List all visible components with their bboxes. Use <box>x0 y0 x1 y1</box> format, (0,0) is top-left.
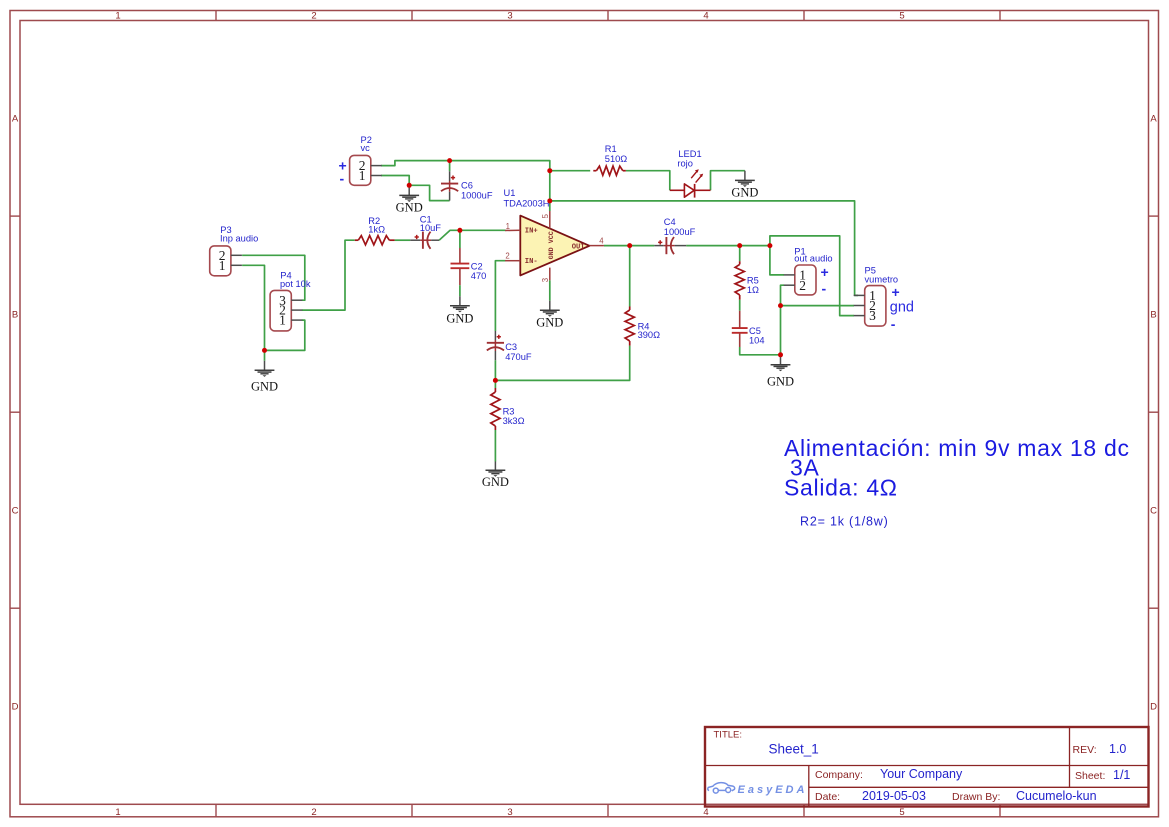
svg-text:GND: GND <box>536 315 563 329</box>
resistor R3 3k3 <box>491 388 500 430</box>
connector P3 <box>210 246 242 276</box>
ground GND (LED1) <box>731 171 758 200</box>
node P5 pin2 net <box>778 303 783 308</box>
capacitor C6 1000uF <box>441 171 458 200</box>
wire C5 bottom to GND junction <box>739 300 741 311</box>
resistor R5 1 ohm <box>735 261 744 300</box>
node C3/R3/R4 <box>493 378 498 383</box>
wire junction down to GND junction <box>780 306 782 355</box>
svg-text:A: A <box>12 114 19 125</box>
wire R1 to LED1 anode <box>626 171 670 191</box>
svg-text:3: 3 <box>507 807 512 818</box>
svg-text:104: 104 <box>749 336 765 346</box>
svg-text:IN+: IN+ <box>525 228 538 236</box>
wire P4 pin1 to GND junction <box>265 320 305 350</box>
connector P4 pot 10k <box>270 290 302 331</box>
capacitor C5 104 <box>732 311 748 347</box>
wire R4 bottom to C3/R3 junction <box>495 346 629 381</box>
svg-text:Your Company: Your Company <box>880 767 963 781</box>
label P1 designator <box>794 247 832 264</box>
svg-text:A: A <box>1150 114 1157 125</box>
svg-text:1: 1 <box>115 11 120 22</box>
svg-text:+: + <box>892 284 900 300</box>
wire GND junction to C6 bottom <box>409 185 449 200</box>
svg-text:C3: C3 <box>505 342 517 352</box>
svg-text:1: 1 <box>219 258 226 273</box>
ground GND (C2) <box>446 296 473 325</box>
wire R2 to C1 <box>395 239 411 241</box>
label C4 <box>664 217 696 237</box>
svg-text:Drawn By:: Drawn By: <box>952 791 1000 803</box>
svg-text:1: 1 <box>359 168 366 183</box>
wire GND junction down to ground <box>264 350 266 360</box>
wire C6 top to VCC bus <box>449 161 451 172</box>
ruler column numbers bottom <box>115 807 904 818</box>
wire P2 pin1 to GND junction <box>381 176 409 186</box>
wire U1 output to C4 <box>604 245 654 247</box>
svg-text:Salida: 4Ω: Salida: 4Ω <box>784 474 898 500</box>
node U1 output <box>627 243 632 248</box>
EasyEDA logo car icon <box>708 783 735 794</box>
ground GND (R3) <box>482 462 509 490</box>
capacitor C3 470uF <box>487 331 504 360</box>
svg-text:4: 4 <box>703 807 708 818</box>
ground GND (P3/P4) <box>251 361 278 394</box>
wire R3 to GND <box>494 430 496 462</box>
capacitor C1 10uF <box>410 232 439 249</box>
svg-text:1: 1 <box>279 313 286 328</box>
wire U1 pin5 bus to P5 pin1 <box>550 201 858 296</box>
svg-text:5: 5 <box>899 807 904 818</box>
node R1 tap <box>547 168 552 173</box>
svg-text:C4: C4 <box>664 217 676 227</box>
svg-text:D: D <box>1150 702 1157 713</box>
annotation power requirements <box>784 435 1130 500</box>
node C5 ground <box>778 352 783 357</box>
svg-text:1: 1 <box>115 807 120 818</box>
svg-text:TDA2003H: TDA2003H <box>504 198 550 208</box>
ruler row letters left <box>12 114 19 713</box>
svg-text:1000uF: 1000uF <box>461 191 493 201</box>
svg-text:GND: GND <box>446 311 473 325</box>
node R5 top <box>737 243 742 248</box>
node VCC bus at C6 <box>447 158 452 163</box>
wire VCC bus tap to R1 <box>550 170 590 172</box>
svg-text:3: 3 <box>507 11 512 22</box>
svg-text:B: B <box>12 310 18 321</box>
svg-text:rojo: rojo <box>677 159 693 169</box>
wire junction down to R5 <box>739 246 741 262</box>
label R4 <box>638 321 661 340</box>
node U1 pin5 bus <box>547 198 552 203</box>
capacitor C2 470 <box>451 248 470 296</box>
svg-text:Sheet:: Sheet: <box>1075 770 1105 782</box>
svg-text:Date:: Date: <box>815 791 840 803</box>
label C5 <box>749 326 765 346</box>
svg-text:GND: GND <box>396 201 423 215</box>
ground GND (P1/P5/C5) <box>767 355 794 389</box>
svg-text:D: D <box>12 702 19 713</box>
svg-text:Cucumelo-kun: Cucumelo-kun <box>1016 789 1097 803</box>
svg-text:gnd: gnd <box>890 300 914 316</box>
svg-text:470: 470 <box>471 271 487 281</box>
svg-text:vumetro: vumetro <box>865 274 899 284</box>
svg-text:Company:: Company: <box>815 769 863 781</box>
node C4 out branch <box>767 243 772 248</box>
svg-text:GND VCC: GND VCC <box>548 231 556 259</box>
label R1 <box>605 144 628 164</box>
svg-text:Sheet_1: Sheet_1 <box>769 742 819 757</box>
svg-text:510Ω: 510Ω <box>605 154 628 164</box>
svg-text:IN-: IN- <box>525 258 538 266</box>
svg-text:1.0: 1.0 <box>1109 742 1126 756</box>
svg-text:4: 4 <box>703 11 708 22</box>
wire junction to C2 <box>459 230 461 248</box>
wire junction to P1 pin1 <box>770 246 784 275</box>
label P3 designator <box>220 225 258 244</box>
svg-text:B: B <box>1150 310 1156 321</box>
svg-text:3: 3 <box>541 278 550 282</box>
ruler row letters right <box>1150 114 1157 713</box>
svg-text:C5: C5 <box>749 326 761 336</box>
svg-text:GND: GND <box>251 380 278 394</box>
wire C3 bottom to junction <box>494 360 496 380</box>
svg-text:REV:: REV: <box>1073 744 1097 756</box>
svg-text:U1: U1 <box>504 188 516 198</box>
svg-text:2019-05-03: 2019-05-03 <box>862 789 926 803</box>
node U1 pin1 input <box>457 228 462 233</box>
label C1 <box>420 215 442 233</box>
svg-text:C: C <box>12 506 19 517</box>
svg-text:1: 1 <box>506 222 510 231</box>
wire P2 pin2 to VCC bus and down to U1 pin5 <box>381 161 550 211</box>
svg-text:1Ω: 1Ω <box>747 285 759 295</box>
svg-text:Inp audio: Inp audio <box>220 233 258 243</box>
svg-text:out audio: out audio <box>794 253 832 263</box>
svg-text:GND: GND <box>482 475 509 489</box>
label P2 designator <box>361 135 372 153</box>
ground GND (U1 pin3) <box>536 301 563 330</box>
svg-text:4: 4 <box>599 236 604 245</box>
node P2 pin1 ground <box>407 183 412 188</box>
label C3 <box>505 342 532 362</box>
label C6 <box>461 181 493 201</box>
svg-text:+: + <box>821 264 829 280</box>
resistor R2 1k <box>355 236 395 245</box>
svg-text:C6: C6 <box>461 181 473 191</box>
label LED1 <box>677 149 701 169</box>
svg-text:R2= 1k (1/8w): R2= 1k (1/8w) <box>800 515 889 529</box>
svg-text:pot 10k: pot 10k <box>280 279 311 289</box>
wire U1 pin2 to C3 top <box>495 261 505 331</box>
svg-text:1/1: 1/1 <box>1113 768 1130 782</box>
svg-text:470uF: 470uF <box>505 352 532 362</box>
svg-text:Alimentación: min 9v max 18 dc: Alimentación: min 9v max 18 dc <box>784 435 1130 461</box>
label R3 <box>503 407 525 426</box>
label P4 designator <box>280 271 311 290</box>
svg-text:2: 2 <box>311 807 316 818</box>
wire P4 pin2 up to R2 <box>302 240 355 310</box>
svg-text:2: 2 <box>799 278 806 293</box>
svg-text:GND: GND <box>731 185 758 199</box>
svg-text:3: 3 <box>869 308 876 323</box>
connector P1 out audio <box>784 265 816 295</box>
wire P3 pin1 to GND junction <box>242 265 264 350</box>
svg-text:5: 5 <box>899 11 904 22</box>
label R5 <box>747 276 759 296</box>
svg-text:R5: R5 <box>747 276 759 286</box>
node P3/P4 ground <box>262 348 267 353</box>
svg-text:TITLE:: TITLE: <box>714 729 743 740</box>
label C2 <box>471 261 487 281</box>
wire P1 pin2 to junction <box>781 285 785 305</box>
wire junction up and over to P5 pin3 <box>770 236 854 316</box>
connector P5 vumetro <box>854 286 886 327</box>
svg-text:vc: vc <box>361 143 371 153</box>
op-amp U1 TDA2003H <box>505 211 604 282</box>
svg-text:GND: GND <box>767 375 794 389</box>
wire C5 bottom to GND junction <box>740 347 781 355</box>
svg-text:10uF: 10uF <box>420 223 442 233</box>
svg-text:-: - <box>340 170 345 186</box>
resistor R4 390 ohm <box>625 307 634 346</box>
ground GND (P2/C6) <box>396 185 423 214</box>
svg-text:5: 5 <box>541 213 550 218</box>
svg-text:390Ω: 390Ω <box>638 330 661 340</box>
resistor R1 510 ohm <box>593 166 626 175</box>
svg-text:1000uF: 1000uF <box>664 227 696 237</box>
svg-text:C: C <box>1150 506 1157 517</box>
svg-text:2: 2 <box>311 11 316 22</box>
svg-text:-: - <box>822 281 827 297</box>
label P5 designator <box>865 266 899 285</box>
svg-text:EasyEDA: EasyEDA <box>738 784 808 796</box>
svg-text:-: - <box>891 316 896 332</box>
label U1 designator <box>504 188 550 208</box>
svg-text:2: 2 <box>505 252 509 261</box>
wire P3 pin2 to P4 pin3 <box>242 255 305 300</box>
ruler column numbers top <box>115 11 904 22</box>
wire C4 to P1/R5 junctions <box>686 245 770 247</box>
wire C1 to U1 pin1 <box>439 230 505 240</box>
svg-text:OUT: OUT <box>572 243 586 251</box>
svg-text:3k3Ω: 3k3Ω <box>503 416 525 426</box>
wire U1 pin3 to GND <box>549 280 551 300</box>
wire junction down to R4 <box>629 246 631 307</box>
label R2 <box>368 216 385 235</box>
wire junction to R3 <box>494 380 496 388</box>
LED LED1 rojo <box>670 169 711 197</box>
title block divider lines <box>705 727 1149 807</box>
svg-text:C2: C2 <box>471 261 483 271</box>
svg-text:LED1: LED1 <box>678 149 701 159</box>
connector P2 <box>350 155 382 185</box>
wire junction to P5 pin2 <box>781 305 855 307</box>
svg-text:1kΩ: 1kΩ <box>368 225 385 235</box>
wire LED1 cathode up to GND <box>711 171 745 191</box>
svg-text:R1: R1 <box>605 144 617 154</box>
capacitor C4 1000uF <box>654 237 686 254</box>
title block frame <box>705 727 1149 807</box>
